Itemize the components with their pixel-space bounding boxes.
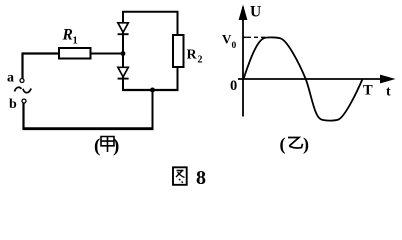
graph U axis arrowhead bbox=[239, 5, 248, 21]
svg-text:b: b bbox=[9, 97, 17, 112]
svg-text:U: U bbox=[250, 4, 261, 21]
terminal b circle bbox=[22, 99, 26, 103]
caption 图 8 bbox=[173, 167, 206, 189]
svg-text:(: ( bbox=[280, 134, 286, 155]
diode D2 (lower, pointing down) bbox=[118, 67, 129, 78]
svg-text:V: V bbox=[222, 32, 232, 47]
terminal a circle bbox=[20, 79, 24, 83]
graph horizontal axis t bbox=[238, 78, 392, 80]
diode D1 (top, pointing down) bbox=[118, 23, 129, 34]
node junction dot on inner bottom wire bbox=[150, 88, 155, 93]
svg-text:R: R bbox=[62, 27, 73, 44]
tick at V0 bbox=[243, 36, 247, 38]
svg-text:0: 0 bbox=[232, 41, 237, 51]
resistor R2 bbox=[173, 35, 184, 67]
label V0 bbox=[222, 32, 237, 52]
wire: main bottom horizontal bbox=[23, 127, 154, 130]
svg-text:): ) bbox=[303, 134, 309, 155]
dashed line V0 to peak bbox=[247, 36, 266, 38]
node junction dot at R1/diode branch bbox=[121, 51, 126, 56]
sine curve bbox=[244, 37, 363, 120]
wire: inner bottom horizontal bbox=[122, 89, 179, 91]
label R2 bbox=[187, 48, 203, 66]
svg-text:R: R bbox=[187, 48, 198, 63]
label R1 bbox=[62, 27, 78, 47]
wire: junction drop to main bottom wire bbox=[152, 90, 154, 130]
label (甲) bbox=[94, 136, 119, 157]
svg-text:8: 8 bbox=[196, 167, 206, 187]
resistor R1 bbox=[59, 48, 91, 59]
svg-text:2: 2 bbox=[198, 55, 203, 66]
wire: right vertical above R2 bbox=[177, 12, 179, 36]
wire: top-left horizontal to R1 bbox=[22, 52, 60, 54]
wire: b terminal down to bottom wire bbox=[22, 103, 24, 129]
svg-text:0: 0 bbox=[230, 78, 237, 94]
wire: right vertical below R2 bbox=[177, 67, 179, 91]
svg-text:t: t bbox=[386, 85, 391, 100]
AC tilde symbol bbox=[15, 87, 32, 92]
wire: top horizontal bbox=[122, 11, 179, 13]
svg-text:a: a bbox=[7, 71, 14, 86]
svg-text:T: T bbox=[363, 83, 373, 99]
svg-text:1: 1 bbox=[73, 36, 78, 47]
graph t axis arrowhead bbox=[380, 75, 396, 84]
svg-text:(: ( bbox=[94, 136, 100, 157]
graph vertical axis U bbox=[242, 7, 244, 117]
label (乙) bbox=[280, 134, 310, 155]
wire: diode branch vertical bbox=[122, 12, 124, 90]
wire: R1 to diode branch junction bbox=[91, 53, 124, 55]
wire: a terminal up to top-left corner bbox=[21, 54, 23, 79]
